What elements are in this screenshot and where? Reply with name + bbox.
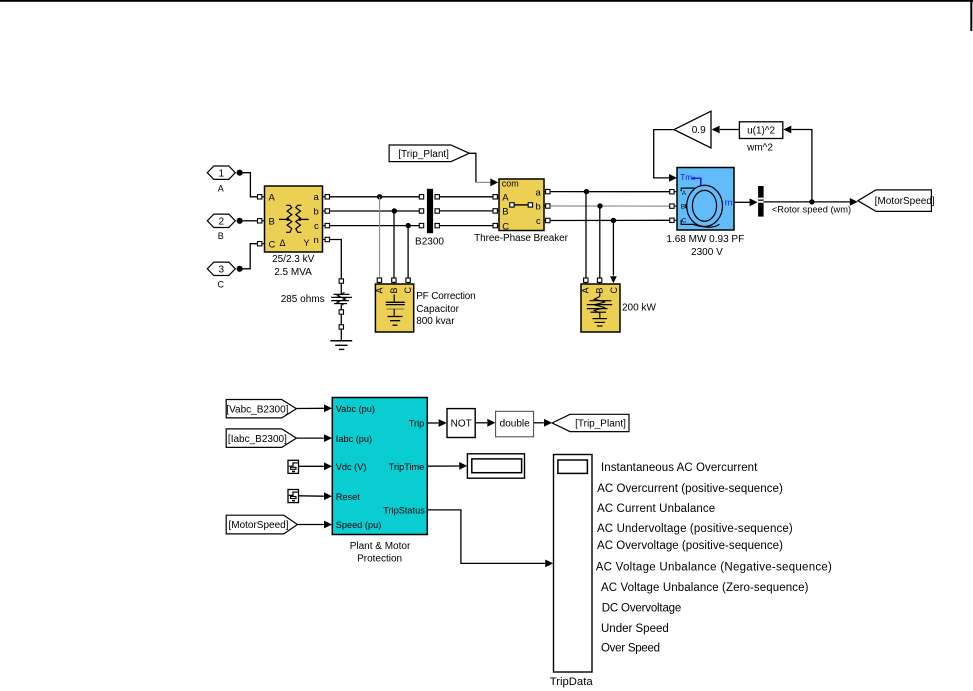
wire Speed to protection bbox=[297, 524, 323, 526]
tap wire a down to load bbox=[585, 192, 587, 278]
transformer winding dots bbox=[286, 218, 289, 221]
arrow into double bbox=[487, 419, 495, 427]
load port square A bbox=[584, 278, 588, 282]
arrow Iabc into protection bbox=[324, 434, 332, 442]
arrow into MotorSpeed goto bbox=[850, 198, 858, 206]
svg-text:A: A bbox=[374, 287, 384, 293]
wire inport3 to transformer C bbox=[243, 244, 258, 269]
wire phase a to bus bbox=[330, 196, 419, 198]
capacitor port square A bbox=[377, 278, 381, 282]
PF correction capacitor block bbox=[375, 284, 413, 332]
svg-text:Under Speed: Under Speed bbox=[601, 623, 669, 635]
wire bus to breaker A bbox=[440, 196, 493, 198]
svg-text:B: B bbox=[218, 231, 224, 241]
window top border bbox=[0, 0, 973, 2]
junction dot phase a tap bbox=[377, 194, 382, 199]
svg-text:NOT: NOT bbox=[451, 419, 472, 430]
breaker port square b bbox=[546, 204, 550, 208]
svg-text:285 ohms: 285 ohms bbox=[281, 294, 325, 305]
capacitor rotated label A bbox=[374, 287, 384, 293]
200 kW load block bbox=[581, 284, 620, 332]
wire phase c to bus bbox=[330, 225, 419, 227]
svg-text:[Vabc_B2300]: [Vabc_B2300] bbox=[226, 404, 288, 415]
wire motor m to bus selector bbox=[734, 201, 750, 203]
motor outer circle bbox=[687, 185, 723, 226]
motor stator lead C bbox=[681, 220, 719, 227]
three-phase breaker block bbox=[499, 179, 544, 231]
arrow Vabc into protection bbox=[324, 404, 332, 412]
svg-text:AC Undervoltage (positive-sequ: AC Undervoltage (positive-sequence) bbox=[597, 523, 793, 535]
capacitor rotated label C bbox=[403, 287, 413, 294]
TripData block outer bbox=[554, 455, 593, 673]
motor stator lead B bbox=[685, 204, 687, 208]
svg-text:A: A bbox=[502, 193, 509, 204]
tap wire b down to capacitor bbox=[393, 211, 395, 278]
breaker port square B bbox=[493, 209, 497, 213]
svg-text:Speed (pu): Speed (pu) bbox=[336, 520, 381, 530]
from tag [MotorSpeed] lower bbox=[226, 515, 297, 534]
svg-text:TripTime: TripTime bbox=[389, 462, 425, 472]
svg-text:C: C bbox=[682, 217, 687, 224]
junction dot phase b tap bbox=[392, 208, 397, 213]
double block bbox=[496, 411, 534, 437]
motor stator lead A bbox=[681, 188, 695, 191]
svg-text:A: A bbox=[581, 287, 591, 293]
svg-text:[Trip_Plant]: [Trip_Plant] bbox=[575, 419, 626, 430]
wire bus selector to MotorSpeed goto bbox=[764, 201, 850, 203]
svg-text:AC Overvoltage (positive-seque: AC Overvoltage (positive-sequence) bbox=[597, 540, 783, 552]
svg-text:Iabc (pu): Iabc (pu) bbox=[336, 434, 372, 444]
arrow into display bbox=[459, 462, 467, 470]
svg-text:b: b bbox=[536, 202, 541, 213]
wire phase b to bus bbox=[330, 210, 419, 212]
wire Fcn to gain bbox=[720, 129, 740, 131]
step source block Vdc bbox=[288, 460, 299, 473]
arrow into Fcn (left-pointing) bbox=[783, 126, 791, 134]
breaker switch icon bbox=[514, 204, 529, 206]
svg-text:AC Current Unbalance: AC Current Unbalance bbox=[597, 503, 715, 515]
svg-text:com: com bbox=[502, 179, 519, 189]
svg-text:TripData: TripData bbox=[550, 676, 594, 688]
load rotated label B bbox=[595, 287, 605, 293]
arrow into Trip_Plant goto bbox=[544, 419, 552, 427]
junction dot load tap c bbox=[611, 218, 616, 223]
goto tag [Trip_Plant] bbox=[552, 414, 629, 431]
wire into grounding resistor bbox=[340, 284, 342, 294]
svg-text:Reset: Reset bbox=[336, 492, 360, 502]
svg-text:AC Overcurrent (positive-seque: AC Overcurrent (positive-sequence) bbox=[597, 483, 783, 495]
transformer port square b bbox=[325, 209, 329, 213]
junction dot load tap a bbox=[584, 189, 589, 194]
svg-text:0.9: 0.9 bbox=[692, 125, 706, 136]
svg-text:C: C bbox=[609, 287, 619, 294]
inport 3 (C) bbox=[207, 262, 235, 275]
arrow into breaker com bbox=[490, 179, 498, 187]
tap wire b down to load bbox=[599, 206, 601, 278]
svg-text:u(1)^2: u(1)^2 bbox=[747, 125, 775, 136]
transformer winding center line bbox=[279, 218, 287, 220]
wire TripStatus to TripData bbox=[427, 510, 545, 564]
svg-text:DC Overvoltage: DC Overvoltage bbox=[602, 603, 681, 615]
transformer port square C bbox=[258, 242, 262, 246]
wire Iabc to protection bbox=[296, 437, 323, 439]
wire breaker b to motor B (gray) bbox=[550, 205, 669, 207]
transformer port square n bbox=[325, 237, 329, 241]
svg-text:C: C bbox=[502, 221, 509, 232]
inport 1 (A) bbox=[207, 166, 235, 179]
goto tag [MotorSpeed] bbox=[858, 190, 932, 212]
wire gain to motor Tm bbox=[654, 130, 674, 178]
svg-text:Plant & Motor: Plant & Motor bbox=[350, 541, 411, 552]
bus B2300 right port b bbox=[435, 209, 439, 213]
svg-text:B: B bbox=[389, 287, 399, 293]
svg-text:Tm: Tm bbox=[680, 173, 692, 182]
svg-text:Three-Phase Breaker: Three-Phase Breaker bbox=[474, 233, 568, 244]
from tag [Vabc_B2300] bbox=[226, 400, 296, 418]
TripData block inner bbox=[558, 460, 588, 473]
arrow Speed into protection bbox=[324, 521, 332, 529]
load port square B bbox=[597, 278, 601, 282]
capacitor rotated label B bbox=[389, 287, 399, 293]
motor port square B bbox=[670, 204, 674, 208]
svg-text:800 kvar: 800 kvar bbox=[416, 316, 455, 327]
wire Trip to NOT bbox=[427, 422, 438, 424]
arrow into TripData bbox=[545, 560, 553, 568]
arrow into gain (left-pointing) bbox=[712, 126, 720, 134]
load rotated label C bbox=[609, 287, 619, 294]
capacitor port square B bbox=[392, 278, 396, 282]
display block inner bbox=[472, 459, 522, 473]
motor port square C bbox=[670, 218, 674, 222]
arrow into motor Tm bbox=[669, 174, 677, 182]
bus B2300 left port a bbox=[419, 195, 423, 199]
capacitor icon bbox=[393, 295, 395, 302]
motor port square A bbox=[670, 190, 674, 194]
wire NOT to double bbox=[475, 422, 487, 424]
svg-text:m: m bbox=[725, 197, 733, 208]
svg-text:PF Correction: PF Correction bbox=[416, 291, 475, 302]
junction dot at inport 3 bbox=[237, 266, 243, 272]
wire double to Trip_Plant goto bbox=[534, 422, 544, 424]
arrow into NOT bbox=[439, 419, 447, 427]
tap wire c down to capacitor bbox=[407, 226, 409, 278]
wire breaker a to motor A bbox=[550, 191, 669, 193]
grounding impedance port square mid bbox=[339, 310, 343, 314]
wire Reset to protection bbox=[299, 495, 324, 497]
svg-text:a: a bbox=[536, 187, 542, 198]
arrow into load C bbox=[610, 276, 617, 283]
breaker port square A bbox=[493, 195, 497, 199]
svg-text:Vdc (V): Vdc (V) bbox=[336, 462, 367, 472]
junction dot at inport 2 bbox=[237, 218, 243, 224]
svg-text:AC Voltage Unbalance (Negative: AC Voltage Unbalance (Negative-sequence) bbox=[596, 561, 832, 573]
transformer port square c bbox=[325, 223, 329, 227]
wire bus to breaker C bbox=[440, 225, 493, 227]
svg-text:a: a bbox=[314, 192, 320, 203]
plant and motor protection block bbox=[332, 398, 427, 535]
bus B2300 right port c bbox=[435, 223, 439, 227]
svg-text:Trip: Trip bbox=[409, 418, 424, 428]
load RL icon bbox=[599, 293, 601, 297]
svg-text:1.68 MW 0.93 PF: 1.68 MW 0.93 PF bbox=[666, 234, 744, 245]
svg-text:[MotorSpeed]: [MotorSpeed] bbox=[228, 520, 288, 531]
wire Vabc to protection bbox=[296, 407, 323, 409]
svg-text:2: 2 bbox=[219, 216, 225, 227]
ground symbol bbox=[330, 340, 352, 342]
wire bus to breaker B bbox=[440, 210, 493, 212]
svg-text:200 kW: 200 kW bbox=[622, 303, 656, 314]
svg-text:2.5 MVA: 2.5 MVA bbox=[274, 267, 312, 278]
svg-text:A: A bbox=[218, 184, 224, 194]
svg-text:c: c bbox=[314, 221, 319, 232]
transformer winding right bbox=[296, 205, 302, 232]
svg-text:3: 3 bbox=[219, 264, 225, 275]
wire square to square bbox=[340, 314, 342, 324]
Fcn block u(1)^2 bbox=[739, 122, 782, 139]
svg-text:wm^2: wm^2 bbox=[746, 142, 773, 153]
arrow into bus selector bbox=[750, 198, 758, 206]
svg-text:B2300: B2300 bbox=[415, 237, 444, 248]
wire breaker c to motor C bbox=[550, 219, 669, 221]
breaker port square a bbox=[546, 189, 550, 193]
from tag [Trip_Plant] bbox=[389, 145, 469, 162]
svg-text:AC Voltage Unbalance (Zero-seq: AC Voltage Unbalance (Zero-sequence) bbox=[601, 582, 809, 594]
svg-text:1: 1 bbox=[219, 168, 225, 179]
bus bar B2300 bbox=[427, 189, 433, 233]
wire resistor to square bbox=[340, 305, 342, 310]
svg-text:b: b bbox=[314, 207, 319, 218]
svg-text:B: B bbox=[502, 207, 508, 218]
transformer winding left bbox=[286, 205, 292, 232]
inport 2 (B) bbox=[207, 214, 235, 227]
breaker port square C bbox=[493, 223, 497, 227]
junction dot phase c tap bbox=[406, 223, 411, 228]
transformer block 25/2.3 kV bbox=[265, 186, 323, 252]
NOT block bbox=[447, 409, 475, 438]
svg-text:C: C bbox=[403, 287, 413, 294]
tap wire c down to load bbox=[612, 221, 614, 276]
svg-text:C: C bbox=[269, 239, 276, 250]
window right edge scrollbar line bbox=[970, 0, 972, 31]
grounding resistor icon bbox=[334, 293, 350, 295]
svg-text:Protection: Protection bbox=[357, 554, 402, 565]
gain triangle 0.9 bbox=[674, 111, 711, 148]
svg-text:25/2.3 kV: 25/2.3 kV bbox=[272, 254, 315, 265]
tap wire a down to capacitor (gray) bbox=[379, 197, 381, 278]
svg-text:[Trip_Plant]: [Trip_Plant] bbox=[398, 149, 449, 160]
svg-text:A: A bbox=[682, 190, 687, 197]
wire inport2 to transformer B bbox=[243, 220, 258, 222]
junction dot at inport 1 bbox=[237, 170, 243, 176]
svg-text:Vabc (pu): Vabc (pu) bbox=[336, 404, 375, 414]
svg-text:<Rotor speed (wm): <Rotor speed (wm) bbox=[772, 204, 851, 214]
grounding impedance port square top bbox=[339, 279, 343, 283]
wire to ground symbol bbox=[340, 329, 342, 340]
junction dot load tap b bbox=[597, 203, 602, 208]
wire TripTime to display bbox=[427, 465, 459, 467]
wire n to grounding impedance bbox=[330, 240, 342, 279]
wire feedback up to Fcn bbox=[792, 130, 812, 202]
step source block Reset bbox=[288, 490, 299, 503]
arrow Reset into protection bbox=[324, 492, 332, 500]
junction dot speed feedback bbox=[809, 199, 814, 204]
svg-text:[MotorSpeed]: [MotorSpeed] bbox=[875, 196, 935, 207]
svg-text:2300 V: 2300 V bbox=[691, 247, 723, 258]
motor block bbox=[677, 168, 734, 231]
svg-text:B: B bbox=[681, 203, 685, 210]
svg-text:Y: Y bbox=[304, 238, 310, 248]
svg-text:TripStatus: TripStatus bbox=[383, 506, 425, 516]
svg-text:Over Speed: Over Speed bbox=[601, 643, 660, 655]
svg-text:Capacitor: Capacitor bbox=[416, 304, 459, 315]
transformer port square A bbox=[258, 195, 262, 199]
svg-text:n: n bbox=[314, 235, 319, 246]
svg-text:c: c bbox=[536, 216, 541, 227]
grounding impedance port square low bbox=[339, 325, 343, 329]
svg-text:C: C bbox=[218, 279, 225, 289]
svg-text:Instantaneous AC Overcurrent: Instantaneous AC Overcurrent bbox=[601, 462, 758, 474]
wire Trip_Plant to breaker com bbox=[469, 153, 476, 182]
svg-text:double: double bbox=[500, 419, 530, 430]
bus B2300 left port c bbox=[419, 223, 423, 227]
motor Tm connector (blue) bbox=[694, 178, 701, 186]
svg-text:A: A bbox=[269, 192, 276, 203]
svg-text:[Iabc_B2300]: [Iabc_B2300] bbox=[228, 434, 287, 445]
bus B2300 left port b bbox=[419, 209, 423, 213]
from tag [Iabc_B2300] bbox=[226, 429, 296, 448]
svg-text:B: B bbox=[269, 216, 275, 227]
bus B2300 right port a bbox=[435, 195, 439, 199]
wire inport1 to transformer A bbox=[243, 173, 258, 197]
capacitor port square C bbox=[406, 278, 410, 282]
transformer port square B bbox=[258, 219, 262, 223]
wire Vdc to protection bbox=[299, 465, 324, 467]
load rotated label A bbox=[581, 287, 591, 293]
breaker port square c bbox=[546, 218, 550, 222]
motor inner circle bbox=[692, 190, 716, 221]
bus selector bar bbox=[758, 186, 764, 217]
display block outer bbox=[467, 454, 524, 478]
svg-text:Δ: Δ bbox=[280, 238, 286, 248]
arrow Vdc into protection bbox=[324, 462, 332, 470]
transformer port square a bbox=[325, 195, 329, 199]
